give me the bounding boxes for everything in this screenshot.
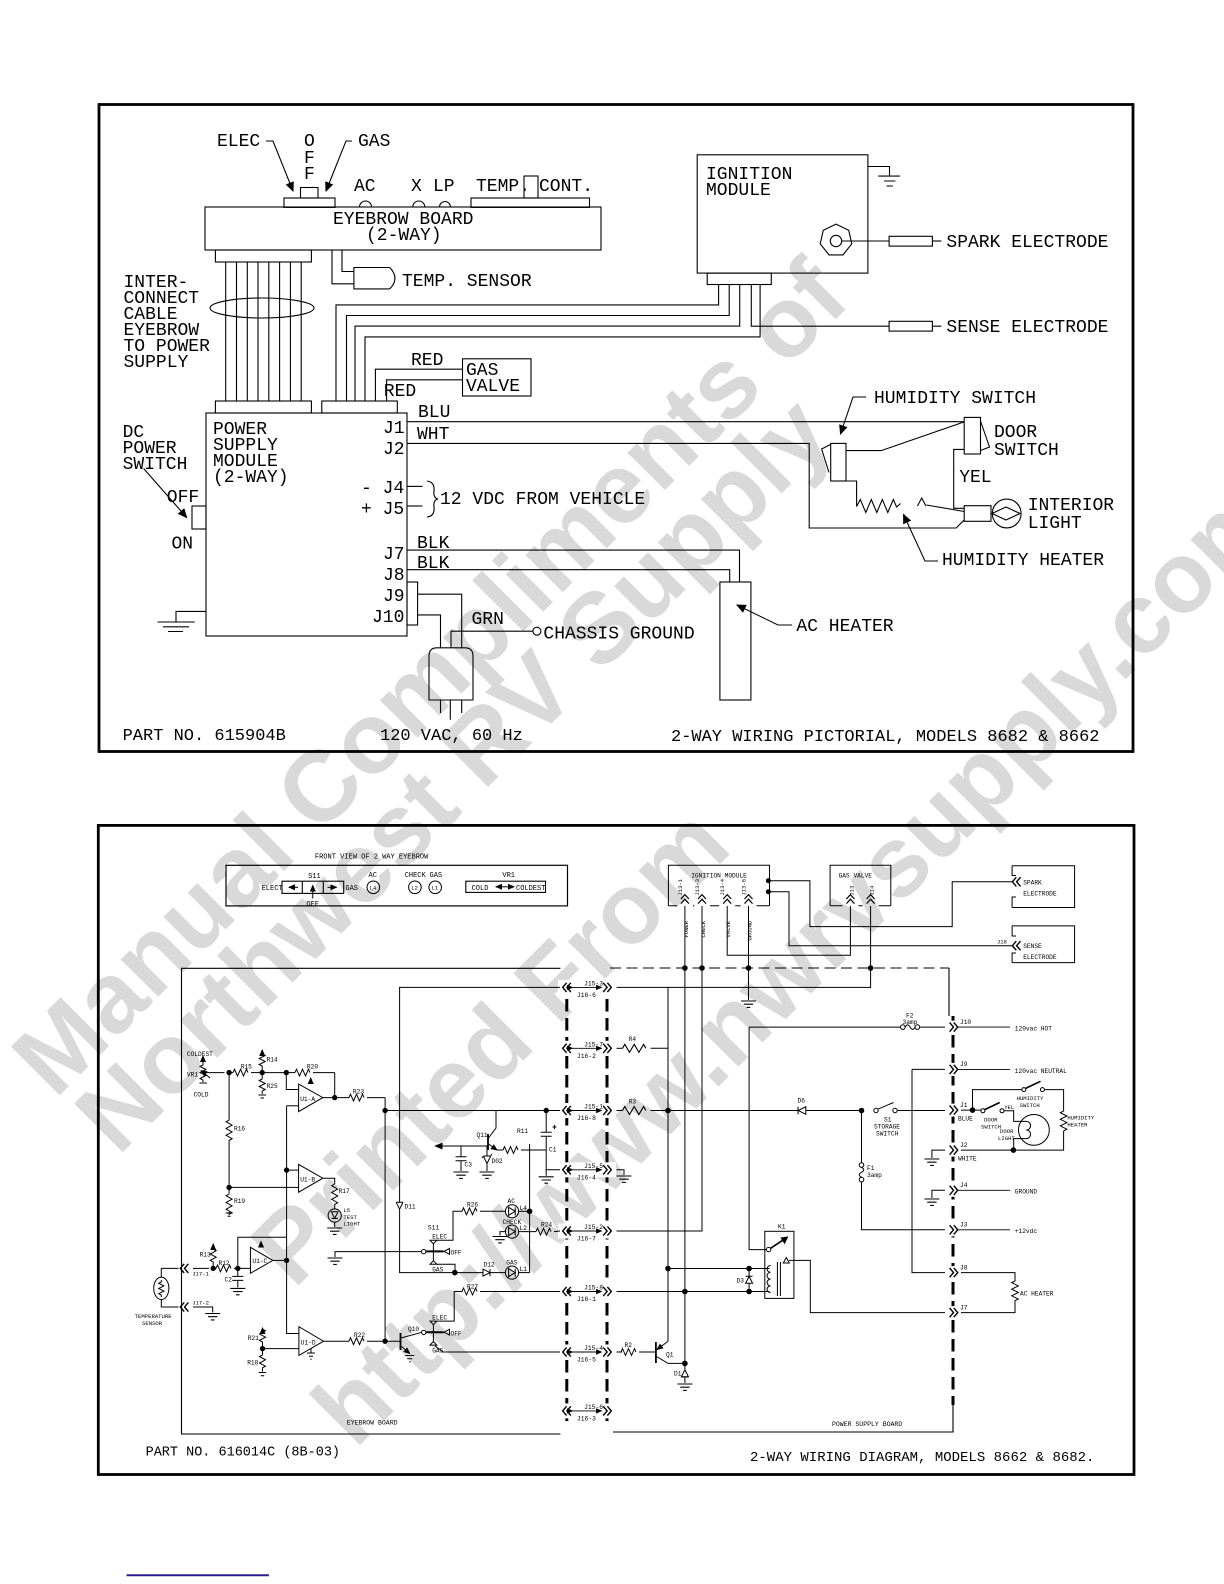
- svg-text:J16-1: J16-1: [577, 1296, 596, 1303]
- humidity switch flap: [822, 444, 831, 472]
- svg-text:J13: J13: [848, 886, 855, 896]
- blue link underline at page bottom: [127, 1574, 269, 1576]
- J2 WHT wire: [407, 443, 964, 528]
- svg-text:SWITCH: SWITCH: [994, 441, 1059, 461]
- main node wire VR1 to R20: [206, 1072, 224, 1074]
- J9 to J8 rail: [912, 1069, 945, 1272]
- psb J2 connector: [950, 1146, 958, 1155]
- R17 resistor: [332, 1184, 338, 1209]
- svg-text:CHECK: CHECK: [405, 872, 427, 880]
- door switch flap: [981, 421, 990, 451]
- LP indicator bump: [440, 202, 451, 208]
- svg-text:FRONT VIEW OF 2 WAY EYEBROW: FRONT VIEW OF 2 WAY EYEBROW: [315, 853, 429, 861]
- ignition module ground wire: [868, 167, 890, 177]
- Q1 transistor: [655, 1342, 657, 1363]
- psb J1 connector: [950, 1106, 958, 1115]
- svg-text:OFF: OFF: [167, 488, 199, 508]
- junction dot R3/vertical: [666, 1108, 671, 1113]
- U1-A output wire: [323, 1097, 349, 1099]
- R15 resistor: [233, 1069, 248, 1076]
- connector pair J15-8/J16-1: [563, 1287, 612, 1296]
- svg-text:ELEC: ELEC: [217, 132, 260, 152]
- Q10 transistor: [400, 1333, 402, 1350]
- svg-text:MODULE: MODULE: [706, 181, 771, 201]
- svg-text:VALVE: VALVE: [725, 920, 732, 937]
- svg-text:GAS: GAS: [506, 1260, 517, 1267]
- storage switch S1: [874, 1108, 878, 1112]
- gas valve J14 wire: [870, 906, 872, 968]
- svg-text:J16-6: J16-6: [577, 992, 596, 999]
- front view S11 off arrow: [312, 886, 314, 899]
- svg-text:AC: AC: [508, 1198, 516, 1205]
- L2 check led ground hook: [500, 1232, 505, 1236]
- junction dot C1: [544, 1108, 548, 1112]
- J17-2 chevron: [180, 1302, 188, 1311]
- Q10 collector: [401, 1333, 420, 1338]
- svg-text:U1-C: U1-C: [252, 1258, 267, 1265]
- junction dot U1-B plus: [227, 1185, 231, 1189]
- spark electrode box: [1012, 866, 1075, 908]
- svg-text:D3: D3: [737, 1278, 745, 1285]
- svg-text:PART NO. 615904B: PART NO. 615904B: [123, 727, 286, 746]
- svg-text:TEMP. SENSOR: TEMP. SENSOR: [402, 272, 532, 292]
- bus junction dot GROUND: [746, 966, 751, 971]
- J17-1 chevron: [180, 1264, 188, 1273]
- J1 BLU wire: [407, 421, 964, 423]
- svg-text:D1: D1: [674, 1371, 682, 1378]
- svg-text:COLDEST: COLDEST: [187, 1051, 213, 1058]
- S11 lower off arrowhead: [444, 1329, 450, 1335]
- J9/J10 connector block: [407, 582, 418, 625]
- junction dots coil top: [666, 1266, 671, 1271]
- power supply board outline bottom: [613, 1405, 953, 1432]
- svg-text:CHASSIS GROUND: CHASSIS GROUND: [543, 624, 694, 644]
- S11 upper switch common: [422, 1249, 426, 1253]
- J10 wire to plug: [418, 615, 441, 648]
- svg-text:J13-1: J13-1: [677, 878, 684, 895]
- L5 test light: [328, 1209, 341, 1222]
- svg-text:SENSE ELECTRODE: SENSE ELECTRODE: [946, 318, 1108, 338]
- sense electrode wire: [770, 892, 1012, 946]
- svg-text:POWER SUPPLY BOARD: POWER SUPPLY BOARD: [832, 1421, 902, 1428]
- junction dot U1-A output: [333, 1095, 337, 1099]
- relay coil top wire: [668, 1268, 770, 1270]
- front view S11 right arrow: [328, 886, 337, 888]
- door light bottom wire: [1014, 1139, 1019, 1151]
- interconnect ribbon cable left connector (top): [215, 250, 311, 262]
- interconnect ribbon cable bottom connector: [215, 401, 311, 413]
- C2 ground: [230, 1288, 245, 1294]
- svg-text:J9: J9: [383, 587, 405, 607]
- svg-text:HUMIDITY HEATER: HUMIDITY HEATER: [942, 551, 1104, 571]
- interior light diamond: [992, 507, 1020, 520]
- svg-text:L1: L1: [432, 885, 439, 892]
- S11 lower GAS contact: [430, 1342, 437, 1346]
- power supply board dashed right edge: [952, 1016, 955, 1405]
- svg-text:K1: K1: [778, 1224, 786, 1231]
- humidity switch contacts: [1022, 1088, 1026, 1092]
- VR1 coldest arrow: [202, 1056, 204, 1065]
- R27 resistor: [462, 1288, 477, 1295]
- svg-text:J15-6: J15-6: [584, 1404, 603, 1411]
- svg-text:SUPPLY: SUPPLY: [124, 353, 189, 373]
- sense electrode box: [1012, 926, 1075, 963]
- Q11 base wire: [441, 1145, 488, 1147]
- humidity switch label leader: [841, 397, 867, 434]
- svg-text:AC HEATER: AC HEATER: [796, 617, 893, 637]
- svg-text:J15-5: J15-5: [584, 1163, 603, 1170]
- svg-text:J8: J8: [960, 1264, 968, 1271]
- humidity switch body: [831, 443, 846, 481]
- junction dot minus input branch: [284, 1070, 288, 1074]
- L1 gas led: [505, 1266, 518, 1279]
- junction dot C2: [236, 1266, 240, 1270]
- svg-text:OFF: OFF: [451, 1330, 462, 1337]
- svg-text:L2: L2: [411, 885, 418, 892]
- AC heater box: [720, 582, 751, 700]
- L1 to rail: [519, 1272, 530, 1274]
- svg-text:TEMP.: TEMP.: [476, 177, 530, 197]
- svg-text:BLU: BLU: [418, 403, 450, 423]
- connector column dashed edge right: [606, 980, 609, 1421]
- VR1 bottom bar: [199, 1082, 207, 1084]
- R4 resistor: [617, 1047, 623, 1049]
- S11 upper common ground wire: [335, 1252, 422, 1257]
- svg-text:VALVE: VALVE: [466, 377, 520, 397]
- spark inline connector: [889, 236, 932, 246]
- temp sensor wire 1: [332, 250, 354, 284]
- svg-text:J17-2: J17-2: [192, 1300, 209, 1307]
- S11 lower switch common: [422, 1330, 426, 1334]
- humidity switch to door switch wire: [846, 422, 964, 451]
- svg-text:R24: R24: [541, 1222, 552, 1229]
- L5 ground: [334, 1222, 336, 1227]
- svg-text:J14: J14: [869, 885, 876, 896]
- R13 resistor up: [210, 1244, 216, 1268]
- junction dot U1-C out on rail: [284, 1258, 288, 1262]
- humidity heater label leader: [904, 515, 939, 562]
- relay core bars: [777, 1262, 780, 1296]
- svg-text:R11: R11: [517, 1128, 528, 1135]
- svg-text:J10: J10: [372, 608, 404, 628]
- S11 upper ELEC contact: [430, 1240, 437, 1244]
- S11 lower blade: [426, 1331, 444, 1333]
- svg-text:GAS: GAS: [432, 1267, 443, 1274]
- svg-text:VR1: VR1: [187, 1071, 198, 1078]
- U1-A power arrow: [310, 1078, 312, 1084]
- svg-text:BLK: BLK: [417, 534, 450, 554]
- svg-text:R19: R19: [234, 1198, 245, 1205]
- humidity cluster feed junction: [970, 1108, 975, 1113]
- svg-text:D6: D6: [798, 1098, 806, 1105]
- front view L2 lamp: [409, 881, 422, 894]
- temp sensor ellipse: [154, 1277, 169, 1299]
- svg-text:R13: R13: [200, 1252, 211, 1259]
- U1-D minus input wire: [263, 1348, 299, 1350]
- R2 resistor: [617, 1351, 623, 1353]
- front view S11 left arrow: [289, 886, 298, 888]
- svg-text:EYEBROW BOARD: EYEBROW BOARD: [347, 1420, 398, 1427]
- svg-text:HUMIDITY SWITCH: HUMIDITY SWITCH: [874, 389, 1036, 409]
- spark electrode wire: [770, 881, 1012, 927]
- heater bottom wire: [961, 1131, 1064, 1150]
- svg-text:120vac NEUTRAL: 120vac NEUTRAL: [1015, 1068, 1067, 1075]
- J2 ground hook: [932, 1150, 945, 1158]
- svg-text:ELEC: ELEC: [432, 1234, 447, 1241]
- svg-text:R15: R15: [241, 1063, 252, 1070]
- S11 upper blade: [426, 1250, 444, 1252]
- svg-text:3amp: 3amp: [903, 1019, 918, 1026]
- C1 ground: [539, 1177, 554, 1183]
- dc power switch pointer arrow: [144, 469, 187, 518]
- svg-text:+ J5: + J5: [361, 500, 404, 520]
- humidity heater wire and zigzag: [846, 481, 901, 513]
- psm ground symbol: [158, 622, 195, 632]
- U1-C power arrow: [260, 1242, 262, 1248]
- wire J15-3 net to gas valve: [617, 968, 871, 987]
- YEL wire to door light: [1004, 1111, 1019, 1122]
- door light bulb: [1019, 1115, 1050, 1146]
- svg-text:VR1: VR1: [502, 872, 515, 880]
- svg-text:F1: F1: [867, 1165, 875, 1172]
- connector pair J15-5/J16-4: [563, 1165, 612, 1174]
- svg-text:YEL: YEL: [1004, 1104, 1014, 1111]
- front view strip box: [226, 865, 568, 906]
- S11 upper contact column: [432, 1244, 434, 1261]
- svg-text:COLD: COLD: [194, 1092, 209, 1099]
- svg-text:GAS: GAS: [430, 872, 443, 880]
- Q11 emitter: [489, 1144, 498, 1150]
- temp sensor bottom wire to J17-2: [161, 1300, 178, 1308]
- svg-text:GROUND: GROUND: [1015, 1189, 1038, 1196]
- svg-text:J16-5: J16-5: [577, 1357, 596, 1364]
- svg-text:J15-2: J15-2: [584, 1224, 603, 1231]
- connector pair J15-2/J16-7: [563, 1226, 612, 1235]
- ignition CHECK pin wire: [701, 906, 703, 968]
- J15-1 wire left: [385, 1110, 560, 1112]
- junction dot S1/F1: [859, 1108, 864, 1113]
- junction dot R16 rail: [227, 1070, 231, 1074]
- op-amp U1-D: [299, 1327, 324, 1356]
- relay NO contact triangle: [783, 1258, 789, 1264]
- power supply board outline top dashed: [610, 967, 949, 969]
- AC heater resistor: [961, 1273, 1018, 1313]
- svg-text:Q11: Q11: [477, 1132, 488, 1139]
- svg-text:PART NO. 616014C (8B-03): PART NO. 616014C (8B-03): [146, 1446, 340, 1461]
- AC indicator bump: [360, 201, 372, 207]
- svg-text:J16-2: J16-2: [577, 1053, 596, 1060]
- temp control plate: [471, 198, 590, 207]
- ignition ground symbol: [741, 1001, 756, 1007]
- svg-text:J15-1: J15-1: [584, 1104, 603, 1111]
- L4 to rail: [519, 1210, 530, 1212]
- power supply board outline right upper: [948, 968, 950, 1016]
- C3 capacitor: [456, 1146, 467, 1171]
- bus junction dot CHECK: [700, 966, 705, 971]
- svg-text:120 VAC, 60 Hz: 120 VAC, 60 Hz: [380, 727, 523, 746]
- svg-text:R22: R22: [354, 1332, 365, 1339]
- humidity switch to heater wire: [1044, 1090, 1063, 1111]
- connector pair J15-7/J16-2: [563, 1044, 612, 1053]
- R25 resistor down: [259, 1073, 265, 1094]
- R11 resistor: [503, 1147, 518, 1154]
- svg-text:LIGHT: LIGHT: [343, 1221, 360, 1228]
- GRN wire: [451, 631, 533, 648]
- svg-text:X: X: [411, 177, 422, 197]
- J17-2 ground wire: [193, 1307, 213, 1313]
- svg-text:HEATER: HEATER: [1067, 1121, 1088, 1128]
- svg-text:Q10: Q10: [408, 1326, 419, 1333]
- psb J7 connector: [950, 1308, 958, 1317]
- junction dot R21/R18: [260, 1346, 264, 1350]
- svg-text:POWER: POWER: [683, 920, 690, 937]
- ignition module box: [697, 155, 868, 273]
- svg-text:R18: R18: [247, 1360, 258, 1367]
- junction dot light/J2: [1011, 1148, 1016, 1153]
- front view L1 lamp: [429, 881, 442, 894]
- wire eyebrow to ignition pin2: [347, 285, 730, 402]
- red wire 2 to gas valve: [387, 380, 463, 401]
- AC heater pointer arrow: [737, 605, 792, 625]
- svg-text:R16: R16: [234, 1126, 245, 1133]
- D11 vertical from J15-3: [400, 987, 560, 1202]
- spark output heptagon: [820, 224, 852, 255]
- R19 ground: [226, 1213, 233, 1216]
- svg-text:F: F: [304, 165, 315, 185]
- J7 wire from relay: [789, 1260, 945, 1312]
- relay coil bottom wire: [617, 1291, 770, 1293]
- diode D1: [681, 1363, 688, 1383]
- R22 resistor: [349, 1338, 364, 1345]
- sense wire: [751, 285, 889, 327]
- U1-B output to R17: [323, 1178, 335, 1184]
- svg-text:- J4: - J4: [361, 479, 404, 499]
- ignition module bottom connector: [707, 273, 771, 284]
- svg-text:AC HEATER: AC HEATER: [1020, 1291, 1054, 1298]
- svg-text:J9: J9: [960, 1061, 968, 1068]
- svg-text:GROUND: GROUND: [747, 920, 754, 941]
- diode D6: [798, 1107, 862, 1115]
- svg-text:IGNITION MODULE: IGNITION MODULE: [691, 873, 747, 880]
- CHECK rail down to J15-2 wire: [617, 968, 703, 1231]
- right wire bundle connector at power supply: [322, 401, 398, 413]
- svg-text:CONT.: CONT.: [539, 177, 593, 197]
- fuse F1: [861, 1113, 863, 1163]
- svg-text:D12: D12: [484, 1262, 495, 1269]
- svg-text:S1: S1: [884, 1117, 892, 1124]
- S11 upper ground: [328, 1258, 343, 1264]
- spark wire 2: [932, 240, 941, 242]
- GAS pointer arrow: [326, 141, 352, 191]
- svg-text:J7: J7: [383, 545, 405, 565]
- R20 resistor: [295, 1069, 310, 1076]
- J4 stub: [407, 485, 423, 487]
- sense wire 2: [932, 325, 941, 327]
- S1 to J1 wire: [897, 1110, 945, 1112]
- R14 resistor up: [259, 1050, 265, 1073]
- svg-text:BLUE: BLUE: [958, 1115, 973, 1122]
- J8 BLK wire: [407, 570, 730, 582]
- svg-text:SWITCH: SWITCH: [1020, 1102, 1040, 1109]
- S11 lower contact column: [432, 1324, 434, 1341]
- humidity heater to light wire: [927, 505, 965, 512]
- junction dot U1-B minus: [284, 1168, 288, 1172]
- svg-text:R2: R2: [625, 1342, 633, 1349]
- svg-text:LIGHT: LIGHT: [998, 1135, 1015, 1142]
- svg-text:J15-8: J15-8: [584, 1285, 603, 1292]
- connector pair J15-1/J16-8: [563, 1106, 612, 1115]
- R20 feedback vertical: [334, 1073, 336, 1098]
- interior light connector: [964, 506, 991, 522]
- op-amp U1-C: [250, 1247, 273, 1273]
- Q11 transistor: [487, 1134, 489, 1150]
- bottom panel border: [98, 825, 1134, 1474]
- red wire 1 to gas valve: [375, 369, 462, 401]
- svg-text:STORAGE: STORAGE: [874, 1124, 900, 1131]
- svg-text:R17: R17: [339, 1188, 350, 1195]
- lower common to Q10: [420, 1331, 422, 1333]
- svg-text:3amp: 3amp: [867, 1172, 882, 1179]
- svg-text:J2: J2: [960, 1142, 968, 1149]
- gaps in dashed lines at connectors: [558, 980, 616, 995]
- psb J4 connector: [950, 1186, 958, 1195]
- svg-text:COLDEST: COLDEST: [516, 885, 545, 893]
- temp sensor top wire to J17-1: [161, 1268, 178, 1277]
- svg-text:LIGHT: LIGHT: [1028, 514, 1082, 534]
- svg-text:R3: R3: [629, 1099, 637, 1106]
- R21 resistor up: [260, 1328, 266, 1349]
- temp sensor element: [159, 1280, 164, 1297]
- front view VR1 arrows: [496, 886, 505, 888]
- svg-text:+12vdc: +12vdc: [1015, 1228, 1038, 1235]
- svg-text:J13-4: J13-4: [719, 878, 726, 895]
- svg-text:J13-3: J13-3: [694, 879, 701, 896]
- svg-text:Q1: Q1: [666, 1352, 674, 1359]
- ignition module right terminals: [766, 879, 770, 883]
- front view S11 switch cells: [282, 881, 344, 893]
- svg-text:SPARK: SPARK: [1023, 880, 1042, 887]
- eyebrow board (2-way) box: [205, 207, 601, 250]
- diode D3: [746, 1269, 753, 1292]
- svg-text:R20: R20: [307, 1063, 318, 1070]
- J9 wire to plug: [418, 594, 462, 648]
- C1 plus sign: [553, 1125, 557, 1129]
- ignition module box: [668, 865, 769, 906]
- psb J10 connector: [950, 1023, 958, 1032]
- S11 upper GAS contact: [430, 1261, 437, 1265]
- psb J8 connector: [950, 1268, 958, 1277]
- plus rail vertical: [287, 1106, 299, 1334]
- relay coil arcs: [767, 1266, 770, 1293]
- temp sensor body: [354, 268, 395, 289]
- svg-text:J10: J10: [960, 1019, 971, 1026]
- op-amp U1-A: [299, 1084, 323, 1112]
- svg-text:J18: J18: [997, 939, 1007, 946]
- svg-text:C2: C2: [225, 1277, 233, 1284]
- svg-text:ELECTRODE: ELECTRODE: [1023, 891, 1057, 898]
- U1-A minus input: [286, 1073, 298, 1090]
- YEL wire: [954, 449, 965, 508]
- U1-D ground stub: [310, 1349, 312, 1353]
- wire eyebrow to ignition pin3: [355, 285, 740, 402]
- svg-text:U1-A: U1-A: [300, 1096, 315, 1103]
- VR1 potentiometer: [200, 1059, 206, 1083]
- svg-text:WHITE: WHITE: [958, 1155, 977, 1162]
- C3 ground: [454, 1172, 469, 1178]
- spark wire: [842, 240, 889, 242]
- svg-text:J16-4: J16-4: [577, 1174, 596, 1181]
- svg-text:R23: R23: [353, 1089, 364, 1096]
